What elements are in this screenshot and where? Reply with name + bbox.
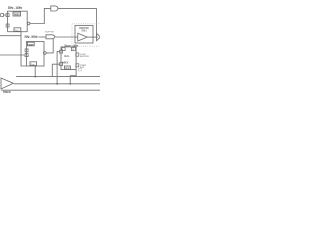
junction dot bus2 b (69, 83, 71, 85)
bus line 1 (16, 76, 100, 78)
svg-text:ONLY: ONLY (82, 31, 88, 33)
input connector J1 (1, 14, 4, 17)
U3 right pin 1 (76, 53, 79, 56)
wire U2 out up to G2 (46, 39, 53, 53)
U1 pin 1 (6, 14, 9, 17)
wire U3 pin2 drop (52, 64, 59, 76)
U2 inner TIMER box (27, 42, 34, 46)
svg-text:50Hz - 500Hz: 50Hz - 500Hz (25, 35, 38, 39)
wire U1 bottom drop (21, 32, 27, 67)
wire U2 bottom to bus (34, 66, 36, 77)
mixer block U3 (61, 47, 76, 70)
wire right riser (96, 8, 98, 37)
U1 inner bottom box (14, 28, 21, 32)
junction dot bus2 a (56, 83, 58, 85)
U3 inner bottom box (64, 66, 70, 69)
svg-text:MIX: MIX (62, 62, 69, 65)
U1 output pin circle (27, 22, 30, 25)
wire left edge stub y36 (0, 35, 21, 37)
U3 right pin 2 (76, 64, 79, 67)
small mark (78, 69, 81, 71)
bus line 3 (1, 89, 100, 91)
wire G1 out to right edge (58, 7, 97, 9)
wire U3 bottom jog (70, 70, 76, 84)
svg-text:TIMER: TIMER (28, 44, 34, 46)
timer block U1 (8, 11, 28, 32)
buffer triangle A2 at edge (97, 33, 101, 40)
U3 inner top-left box (62, 47, 65, 50)
U3 left pin 1 (60, 50, 63, 53)
timer block U2 (27, 42, 45, 67)
wire U3 pin1 drop (57, 52, 60, 84)
svg-text:50Hz - 100Hz: 50Hz - 100Hz (8, 6, 22, 10)
svg-text:MID: MID (65, 68, 70, 70)
svg-text:BUFFER: BUFFER (80, 56, 89, 58)
wire U1 out to riser (30, 8, 51, 23)
dashed group border (72, 24, 100, 46)
svg-text:TIMER: TIMER (3, 91, 11, 94)
svg-text:TIMER: TIMER (14, 13, 20, 16)
svg-text:BAL: BAL (64, 54, 70, 58)
U2 pin 1 (25, 49, 28, 52)
op-amp A3 (1, 78, 13, 89)
wire into G2 (39, 36, 47, 38)
svg-text:Out: Out (31, 63, 35, 66)
junction node right (96, 36, 98, 38)
wire A1 to edge (87, 36, 96, 38)
U2 output circle (43, 52, 46, 55)
U2 pin 2 (25, 54, 28, 57)
buffer gate G2 (46, 35, 55, 39)
U3 left pin 2 (60, 63, 63, 66)
wire into A1 (75, 36, 78, 38)
buffer gate G1 (51, 6, 58, 11)
U1 pin 2 (6, 24, 9, 27)
U3 inner top box (71, 47, 75, 50)
buffer triangle A1 (78, 33, 88, 41)
junction dot bus1 (34, 76, 36, 78)
wire J1 to U1 pin1 (4, 14, 7, 16)
U1 inner TIMER box (13, 12, 21, 16)
wire left edge to U2 pin2 (0, 54, 25, 56)
svg-text:Out: Out (15, 29, 19, 32)
wire G2 to monitor box (55, 36, 75, 38)
svg-text:W: W (72, 49, 74, 51)
svg-text:BUFFER: BUFFER (45, 32, 54, 34)
bus line 2 (14, 83, 100, 85)
U2 inner bottom box (30, 62, 37, 66)
monitor box U4 (75, 25, 93, 43)
